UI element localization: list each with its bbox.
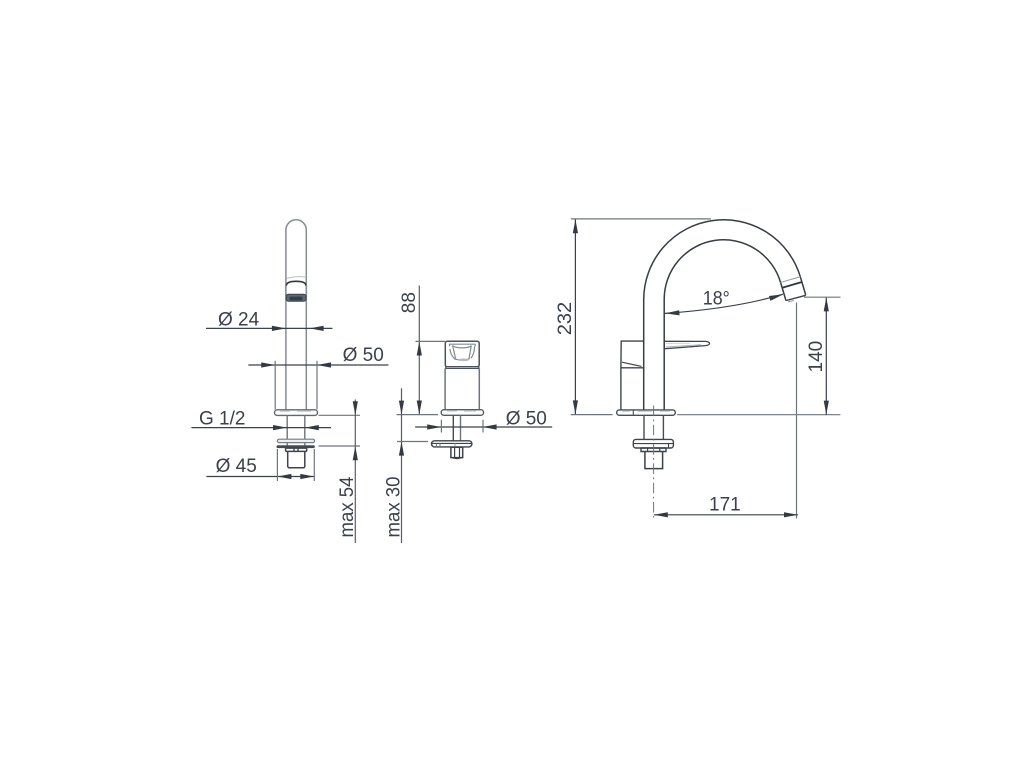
svg-text:Ø 50: Ø 50 <box>506 409 547 430</box>
svg-text:Ø 45: Ø 45 <box>216 456 257 477</box>
svg-text:18°: 18° <box>703 288 730 309</box>
svg-text:G 1/2: G 1/2 <box>199 409 245 430</box>
svg-text:max 54: max 54 <box>337 476 358 537</box>
svg-text:171: 171 <box>709 494 741 515</box>
svg-text:Ø 50: Ø 50 <box>343 345 384 366</box>
svg-text:232: 232 <box>555 302 576 336</box>
svg-text:88: 88 <box>399 292 420 313</box>
svg-text:Ø 24: Ø 24 <box>218 310 260 331</box>
svg-text:max 30: max 30 <box>384 477 405 538</box>
svg-text:140: 140 <box>806 341 827 373</box>
